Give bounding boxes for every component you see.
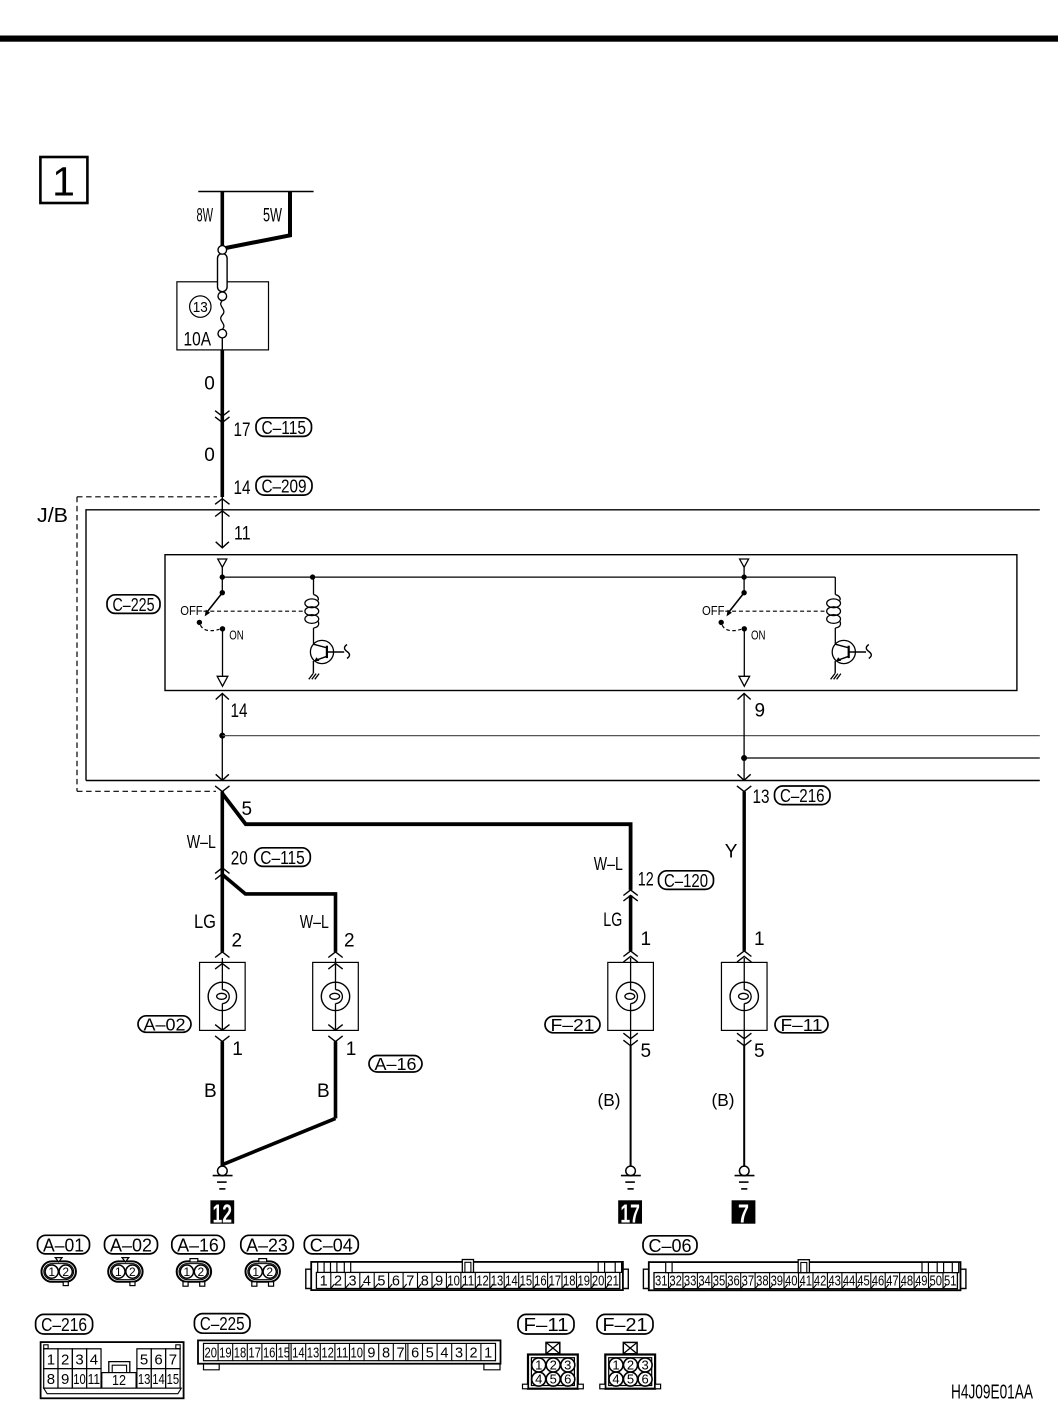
svg-text:8: 8 bbox=[47, 1371, 55, 1388]
svg-text:2: 2 bbox=[62, 1265, 69, 1279]
svg-text:9: 9 bbox=[367, 1346, 375, 1362]
svg-text:38: 38 bbox=[756, 1274, 769, 1290]
wire pin 14 out of switch bbox=[216, 694, 229, 700]
svg-text:4: 4 bbox=[440, 1346, 448, 1362]
dashed arc OFF-ON bbox=[200, 625, 219, 631]
wire pin 9 out of switch bbox=[738, 694, 751, 700]
bus wire B bbox=[744, 757, 1040, 759]
svg-text:1: 1 bbox=[641, 929, 652, 950]
svg-text:42: 42 bbox=[814, 1274, 827, 1290]
svg-text:43: 43 bbox=[828, 1274, 841, 1290]
svg-text:C–225: C–225 bbox=[113, 594, 155, 615]
svg-text:12: 12 bbox=[638, 870, 654, 891]
svg-text:13: 13 bbox=[193, 299, 208, 316]
illumination coil bbox=[834, 577, 836, 594]
ground ref 7 bbox=[732, 1199, 756, 1229]
lamp F-21 bbox=[608, 958, 654, 1030]
svg-text:2: 2 bbox=[470, 1346, 478, 1362]
svg-text:A–02: A–02 bbox=[110, 1234, 152, 1255]
connector C-04 drawing (pins 1-21) bbox=[306, 1260, 629, 1291]
svg-text:F–21: F–21 bbox=[551, 1015, 595, 1035]
svg-text:C–216: C–216 bbox=[780, 785, 825, 806]
connector A-23 drawing bbox=[246, 1259, 280, 1287]
svg-text:ON: ON bbox=[751, 629, 766, 643]
svg-text:6: 6 bbox=[641, 1372, 648, 1387]
wire to J/B exit bbox=[221, 736, 223, 781]
connector label F-11 bbox=[518, 1314, 574, 1335]
svg-text:13: 13 bbox=[491, 1273, 504, 1289]
output triangle bbox=[739, 676, 750, 686]
svg-text:LG: LG bbox=[603, 910, 622, 931]
svg-text:19: 19 bbox=[219, 1346, 232, 1362]
svg-text:35: 35 bbox=[713, 1274, 726, 1290]
ground 12 bbox=[213, 1166, 233, 1189]
wire 5W bbox=[223, 192, 290, 249]
svg-text:5: 5 bbox=[550, 1372, 557, 1387]
svg-text:10: 10 bbox=[351, 1346, 364, 1362]
svg-text:48: 48 bbox=[901, 1274, 914, 1290]
svg-text:F–11: F–11 bbox=[524, 1314, 569, 1335]
svg-text:1: 1 bbox=[346, 1039, 357, 1060]
svg-text:B: B bbox=[317, 1081, 330, 1102]
svg-text:2: 2 bbox=[627, 1358, 634, 1373]
svg-text:13: 13 bbox=[753, 787, 770, 808]
svg-text:40: 40 bbox=[785, 1274, 798, 1290]
OFF contact bbox=[197, 620, 202, 625]
ground ref 17 bbox=[618, 1199, 642, 1229]
connector C-216 pin 13 crossing bbox=[737, 786, 751, 792]
connector label C-06 bbox=[643, 1235, 697, 1256]
input triangle bbox=[740, 559, 749, 567]
dashed link to coil bbox=[725, 610, 826, 612]
svg-text:A–16: A–16 bbox=[177, 1234, 219, 1255]
svg-text:H4J09E01AA: H4J09E01AA bbox=[951, 1382, 1033, 1404]
J/B dashed outline bbox=[77, 496, 217, 498]
svg-text:31: 31 bbox=[655, 1274, 668, 1290]
svg-text:(B): (B) bbox=[712, 1090, 735, 1110]
svg-text:50: 50 bbox=[930, 1274, 943, 1290]
svg-text:37: 37 bbox=[742, 1274, 755, 1290]
lamp F-11 bbox=[721, 958, 767, 1030]
svg-text:5: 5 bbox=[140, 1351, 148, 1368]
svg-text:17: 17 bbox=[549, 1273, 562, 1289]
svg-text:5: 5 bbox=[754, 1041, 765, 1062]
svg-text:32: 32 bbox=[669, 1274, 682, 1290]
svg-text:15: 15 bbox=[167, 1371, 180, 1388]
chassis ground bbox=[831, 674, 835, 680]
svg-text:19: 19 bbox=[577, 1273, 590, 1289]
svg-text:1: 1 bbox=[184, 1265, 191, 1279]
svg-text:14: 14 bbox=[152, 1371, 165, 1388]
wire 8W bbox=[221, 192, 225, 247]
connector F-21 drawing bbox=[600, 1342, 661, 1388]
svg-text:1: 1 bbox=[252, 1265, 259, 1279]
svg-text:1: 1 bbox=[535, 1358, 542, 1373]
illumination coil bbox=[313, 577, 315, 594]
svg-text:7: 7 bbox=[738, 1199, 749, 1229]
connector crossing pin 5 bbox=[215, 786, 229, 792]
svg-text:3: 3 bbox=[75, 1351, 83, 1368]
J/B solid box bbox=[86, 510, 1040, 781]
svg-text:14: 14 bbox=[292, 1346, 305, 1362]
svg-text:17: 17 bbox=[248, 1346, 261, 1362]
wire joins ground bbox=[223, 1118, 336, 1164]
svg-text:12: 12 bbox=[476, 1273, 489, 1289]
svg-text:3: 3 bbox=[564, 1358, 571, 1373]
ON contact bbox=[220, 626, 225, 631]
svg-text:14: 14 bbox=[234, 478, 251, 499]
svg-text:15: 15 bbox=[520, 1273, 533, 1289]
svg-text:2: 2 bbox=[61, 1351, 69, 1368]
chassis ground bbox=[309, 674, 313, 680]
svg-text:8W: 8W bbox=[197, 206, 214, 227]
svg-text:2: 2 bbox=[550, 1358, 557, 1373]
wire (B) from F-21 bbox=[630, 1046, 632, 1166]
svg-text:34: 34 bbox=[698, 1274, 711, 1290]
connector label A-23 bbox=[241, 1234, 293, 1255]
junction node at left coil bbox=[310, 574, 315, 579]
ground 17 bbox=[621, 1166, 641, 1189]
svg-text:5: 5 bbox=[426, 1346, 434, 1362]
svg-text:10: 10 bbox=[447, 1273, 460, 1289]
ON contact bbox=[742, 626, 747, 631]
switch box (lighting switch) bbox=[165, 555, 1017, 691]
svg-text:2: 2 bbox=[334, 1273, 342, 1289]
svg-text:14: 14 bbox=[505, 1273, 518, 1289]
switch arm bbox=[208, 593, 223, 612]
svg-text:5: 5 bbox=[627, 1372, 634, 1387]
svg-text:51: 51 bbox=[944, 1274, 957, 1290]
title bar bbox=[0, 36, 1058, 42]
node pivot bbox=[741, 574, 746, 579]
svg-text:C–115: C–115 bbox=[260, 847, 305, 868]
node pivot bbox=[220, 574, 225, 579]
svg-text:16: 16 bbox=[534, 1273, 547, 1289]
svg-text:6: 6 bbox=[392, 1273, 400, 1289]
svg-text:18: 18 bbox=[234, 1346, 247, 1362]
wire (B) from F-11 bbox=[743, 1046, 745, 1166]
svg-text:9: 9 bbox=[435, 1273, 443, 1289]
connector label A-01 bbox=[38, 1234, 90, 1255]
dashed arc OFF-ON bbox=[722, 625, 741, 631]
power rail wire bbox=[198, 191, 313, 193]
svg-text:C–06: C–06 bbox=[649, 1235, 692, 1256]
junction node bbox=[219, 733, 225, 739]
svg-text:3: 3 bbox=[348, 1273, 356, 1289]
svg-text:20: 20 bbox=[231, 849, 248, 870]
svg-text:B: B bbox=[204, 1081, 217, 1102]
bus wire A bbox=[222, 735, 1040, 737]
svg-text:J/B: J/B bbox=[37, 505, 68, 527]
connector C-216 drawing bbox=[41, 1342, 184, 1398]
svg-text:2: 2 bbox=[129, 1265, 136, 1279]
lamp A-02 (tail lamp) bbox=[200, 958, 246, 1030]
branch wire to F-21 (pin 5) bbox=[222, 794, 630, 890]
switch unit right bbox=[702, 559, 871, 686]
svg-text:17: 17 bbox=[234, 420, 251, 441]
squiggle (continuation) bbox=[866, 645, 871, 659]
connector label A-02 bbox=[105, 1234, 158, 1255]
svg-text:14: 14 bbox=[231, 701, 248, 722]
svg-text:11: 11 bbox=[88, 1371, 101, 1388]
svg-text:2: 2 bbox=[198, 1265, 205, 1279]
svg-text:1: 1 bbox=[48, 1265, 55, 1279]
connector label A-16 bbox=[172, 1234, 225, 1255]
svg-text:2: 2 bbox=[266, 1265, 273, 1279]
connector A-16 drawing bbox=[177, 1259, 211, 1287]
dashed link to coil bbox=[204, 610, 305, 612]
transistor bbox=[310, 640, 333, 663]
svg-text:7: 7 bbox=[406, 1273, 414, 1289]
lamp A-16 bbox=[313, 958, 359, 1030]
svg-text:11: 11 bbox=[462, 1273, 475, 1289]
svg-text:4: 4 bbox=[90, 1351, 98, 1368]
svg-text:C–115: C–115 bbox=[262, 417, 307, 438]
svg-text:17: 17 bbox=[620, 1199, 640, 1229]
wire B from A-16 bbox=[334, 1042, 338, 1119]
svg-text:F–21: F–21 bbox=[603, 1314, 648, 1335]
switch arm bbox=[729, 593, 744, 612]
svg-text:1: 1 bbox=[484, 1346, 492, 1362]
connector label C-216 bbox=[36, 1314, 93, 1335]
svg-text:9: 9 bbox=[61, 1371, 69, 1388]
wire 0 (fuse output) bbox=[221, 350, 225, 497]
svg-text:LG: LG bbox=[194, 912, 216, 933]
svg-text:OFF: OFF bbox=[180, 604, 203, 618]
switch unit left (tail lamp switch) bbox=[180, 559, 349, 686]
OFF contact bbox=[719, 620, 724, 625]
svg-text:0: 0 bbox=[204, 445, 215, 466]
svg-text:3: 3 bbox=[641, 1358, 648, 1373]
connector C-06 drawing (pins 31-51) bbox=[643, 1260, 966, 1291]
ground 7 bbox=[735, 1166, 755, 1189]
svg-text:C–225: C–225 bbox=[200, 1313, 245, 1334]
page number box 1 bbox=[40, 157, 87, 205]
transistor bbox=[832, 640, 855, 663]
svg-text:3: 3 bbox=[455, 1346, 463, 1362]
svg-text:20: 20 bbox=[205, 1346, 218, 1362]
svg-text:5: 5 bbox=[641, 1041, 652, 1062]
branch wire to A-16 bbox=[222, 875, 335, 952]
svg-text:15: 15 bbox=[278, 1346, 291, 1362]
svg-text:1: 1 bbox=[320, 1273, 328, 1289]
wire to output bbox=[743, 629, 745, 677]
connector C-225 drawing (pins 20-1) bbox=[198, 1340, 501, 1369]
svg-text:1: 1 bbox=[52, 159, 75, 205]
wire into switch, pin 11 bbox=[221, 497, 223, 548]
svg-text:46: 46 bbox=[872, 1274, 885, 1290]
svg-text:6: 6 bbox=[564, 1372, 571, 1387]
svg-text:45: 45 bbox=[857, 1274, 870, 1290]
svg-text:A–02: A–02 bbox=[144, 1014, 186, 1034]
svg-text:11: 11 bbox=[234, 523, 251, 544]
svg-text:W–L: W–L bbox=[187, 832, 216, 852]
fuse box bbox=[177, 282, 269, 350]
svg-text:1: 1 bbox=[612, 1358, 619, 1373]
svg-text:Y: Y bbox=[725, 842, 738, 863]
fuse number circle 13 bbox=[190, 296, 211, 317]
svg-text:4: 4 bbox=[363, 1273, 371, 1289]
svg-text:5: 5 bbox=[377, 1273, 385, 1289]
svg-text:1: 1 bbox=[47, 1351, 55, 1368]
svg-text:ON: ON bbox=[229, 629, 244, 643]
svg-text:2: 2 bbox=[344, 931, 355, 952]
svg-text:4: 4 bbox=[612, 1372, 619, 1387]
svg-text:5W: 5W bbox=[263, 206, 282, 227]
svg-text:8: 8 bbox=[382, 1346, 390, 1362]
svg-text:A–16: A–16 bbox=[375, 1054, 417, 1074]
svg-text:20: 20 bbox=[592, 1273, 605, 1289]
svg-text:OFF: OFF bbox=[702, 604, 725, 618]
connector A-02 drawing bbox=[108, 1258, 142, 1286]
svg-text:12: 12 bbox=[112, 1372, 126, 1389]
svg-text:(B): (B) bbox=[598, 1090, 621, 1110]
ground ref 12 bbox=[210, 1199, 234, 1229]
svg-text:1: 1 bbox=[115, 1265, 122, 1279]
svg-text:47: 47 bbox=[886, 1274, 899, 1290]
svg-text:6: 6 bbox=[411, 1346, 419, 1362]
wire Y to F-11 bbox=[743, 792, 746, 951]
svg-text:21: 21 bbox=[606, 1273, 619, 1289]
svg-text:16: 16 bbox=[263, 1346, 276, 1362]
connector A-01 drawing bbox=[42, 1258, 76, 1286]
svg-text:A–23: A–23 bbox=[246, 1234, 288, 1255]
svg-text:44: 44 bbox=[843, 1274, 856, 1290]
junction node bbox=[741, 755, 747, 761]
svg-text:C–216: C–216 bbox=[41, 1314, 87, 1335]
svg-text:12: 12 bbox=[213, 1199, 233, 1229]
svg-text:18: 18 bbox=[563, 1273, 576, 1289]
wire to output bbox=[222, 629, 224, 677]
svg-text:C–04: C–04 bbox=[310, 1234, 353, 1255]
svg-text:5: 5 bbox=[242, 799, 253, 820]
svg-text:39: 39 bbox=[771, 1274, 784, 1290]
svg-text:6: 6 bbox=[154, 1351, 162, 1368]
svg-text:49: 49 bbox=[915, 1274, 928, 1290]
svg-text:W–L: W–L bbox=[300, 912, 329, 932]
connector C-115 pin 17 crossing bbox=[215, 411, 229, 417]
input triangle bbox=[218, 559, 227, 567]
connector F-11 drawing bbox=[523, 1342, 584, 1388]
svg-text:7: 7 bbox=[397, 1346, 405, 1362]
wire B from A-02 to ground bbox=[221, 1042, 225, 1166]
svg-text:F–11: F–11 bbox=[781, 1015, 823, 1035]
entry chevrons into J/B bbox=[215, 499, 229, 505]
svg-text:W–L: W–L bbox=[594, 854, 623, 874]
wire LG to F-21 bbox=[629, 895, 633, 951]
svg-text:36: 36 bbox=[727, 1274, 740, 1290]
connector label F-21 bbox=[597, 1314, 653, 1335]
svg-text:C–209: C–209 bbox=[262, 475, 307, 496]
svg-text:11: 11 bbox=[336, 1346, 349, 1362]
connector label C-04 bbox=[304, 1234, 358, 1255]
output triangle bbox=[217, 676, 228, 686]
wire W-L main down bbox=[221, 792, 225, 952]
svg-text:9: 9 bbox=[755, 701, 766, 722]
svg-text:A–01: A–01 bbox=[43, 1234, 84, 1255]
fuse F13 symbol bbox=[218, 246, 228, 350]
svg-text:8: 8 bbox=[421, 1273, 429, 1289]
svg-text:41: 41 bbox=[799, 1274, 812, 1290]
svg-text:10: 10 bbox=[73, 1371, 86, 1388]
svg-text:1: 1 bbox=[754, 929, 765, 950]
svg-text:12: 12 bbox=[321, 1346, 334, 1362]
svg-text:4: 4 bbox=[535, 1372, 542, 1387]
svg-text:7: 7 bbox=[169, 1351, 177, 1368]
squiggle (continuation) bbox=[345, 645, 350, 659]
internal bus wire bbox=[222, 576, 835, 578]
svg-text:10A: 10A bbox=[184, 330, 212, 351]
svg-text:13: 13 bbox=[307, 1346, 320, 1362]
svg-text:33: 33 bbox=[684, 1274, 697, 1290]
svg-text:0: 0 bbox=[204, 373, 215, 394]
svg-text:C–120: C–120 bbox=[664, 870, 708, 891]
svg-text:2: 2 bbox=[232, 931, 243, 952]
connector label C-225 bbox=[194, 1313, 250, 1334]
svg-text:13: 13 bbox=[138, 1371, 151, 1388]
svg-text:1: 1 bbox=[232, 1039, 243, 1060]
